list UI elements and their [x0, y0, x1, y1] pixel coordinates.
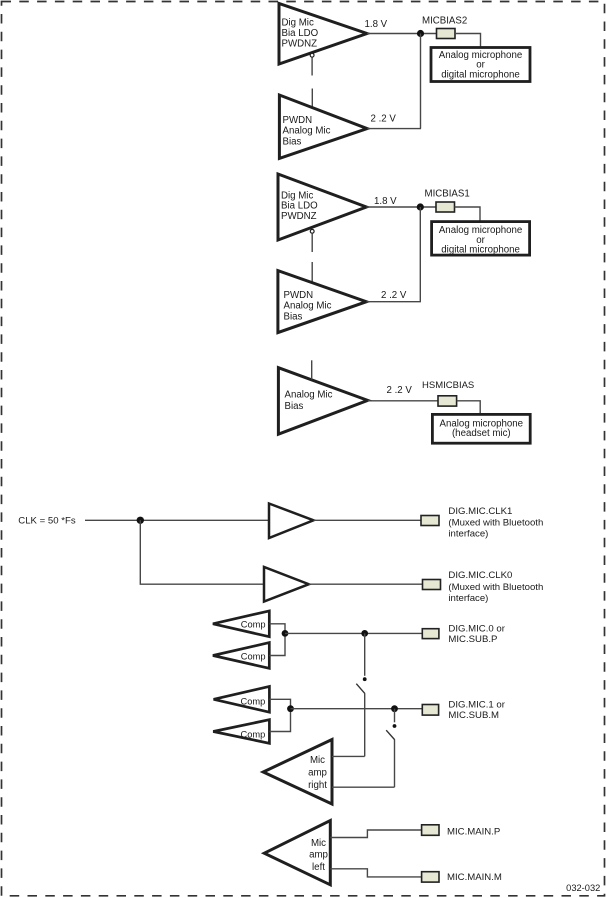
svg-text:amp: amp [309, 850, 328, 861]
svg-text:PWDNZ: PWDNZ [282, 39, 318, 50]
svg-text:MIC.MAIN.P: MIC.MAIN.P [447, 827, 500, 838]
wire: U5 output 2.2V to HSMICBIAS pad [368, 400, 438, 402]
switch SW2 upper wire [394, 709, 396, 723]
wire: Mic amp left lower input to MIC.MAIN.M pad [330, 869, 421, 877]
svg-text:1.8 V: 1.8 V [374, 196, 397, 207]
wire: U5 control stub [311, 360, 313, 379]
svg-text:Comp: Comp [241, 729, 266, 739]
svg-text:CLK = 50 *Fs: CLK = 50 *Fs [18, 516, 76, 527]
svg-text:Bias: Bias [284, 311, 303, 322]
wire: Mic amp left upper input to MIC.MAIN.P pad [330, 830, 421, 838]
switch SW2 lower wire to Mic amp right [394, 740, 396, 787]
svg-text:DIG.MIC.CLK1: DIG.MIC.CLK1 [448, 506, 512, 517]
svg-text:Dig Mic: Dig Mic [282, 18, 314, 29]
amplifier U8: Mic amp right [263, 740, 332, 805]
svg-text:PWDN: PWDN [283, 115, 313, 126]
wire: MICBIAS2 junction down to 2.2V line [420, 34, 422, 129]
wire: U7 output to DIG.MIC.CLK0 pad [309, 583, 423, 585]
svg-text:DIG.MIC.0 or: DIG.MIC.0 or [448, 623, 505, 634]
wire: U3 PWDNZ control line [311, 234, 313, 283]
wire: CLK input line [85, 519, 269, 521]
node: DIG.MIC.1 switch junction [391, 705, 398, 712]
svg-text:interface): interface) [448, 593, 488, 604]
svg-text:Mic: Mic [310, 755, 325, 766]
svg-text:amp: amp [308, 768, 327, 779]
wire: U1 PWDNZ control line [311, 58, 313, 108]
switch SW2 blade [386, 730, 395, 740]
node: MICBIAS1 junction [417, 203, 424, 210]
wire: U1 output 1.8V to MICBIAS2 pad [367, 33, 437, 35]
svg-text:2 .2 V: 2 .2 V [387, 385, 413, 396]
comparator A2 (Comp) [213, 643, 269, 669]
wire: DIG.MIC.1 line [291, 708, 423, 710]
svg-text:Bias: Bias [285, 401, 304, 412]
svg-text:PWDN: PWDN [284, 290, 314, 301]
inverter bubble on U1 PWDNZ [310, 53, 314, 57]
wire: comparator A bracket [269, 624, 285, 656]
wire: MICBIAS1 pad to microphone box [455, 207, 481, 222]
wire: MICBIAS2 pad to microphone box [455, 34, 481, 48]
box: analog/digital microphone (MICBIAS1) [432, 222, 530, 256]
comparator B1 (Comp) [214, 686, 270, 712]
svg-text:MICBIAS1: MICBIAS1 [425, 189, 470, 200]
wire: comparator B bracket [269, 699, 290, 731]
svg-text:Analog Mic: Analog Mic [285, 390, 333, 401]
pad: MICBIAS2 [437, 29, 456, 39]
switch SW1 contact dot [363, 677, 367, 681]
svg-text:Analog Mic: Analog Mic [284, 300, 332, 311]
wire: U6 output to DIG.MIC.CLK1 pad [314, 519, 422, 521]
svg-text:1.8 V: 1.8 V [365, 19, 388, 30]
svg-text:(Muxed with Bluetooth: (Muxed with Bluetooth [448, 517, 543, 528]
svg-text:MIC.SUB.P: MIC.SUB.P [448, 634, 497, 645]
box: analog/digital microphone (MICBIAS2) [431, 48, 530, 82]
svg-text:2 .2 V: 2 .2 V [371, 114, 397, 125]
comparator B2 (Comp) [213, 720, 269, 744]
amplifier U3: Dig Mic Bias LDO (MICBIAS1) [278, 174, 366, 240]
pad: MIC.MAIN.P [422, 825, 439, 836]
node: DIG.MIC.0 switch junction [361, 630, 368, 637]
svg-text:DIG.MIC.1 or: DIG.MIC.1 or [448, 699, 505, 710]
pad: HSMICBIAS [438, 396, 457, 406]
wire: Mic amp right upper input [332, 755, 365, 757]
svg-text:Comp: Comp [241, 696, 266, 706]
svg-text:Analog Mic: Analog Mic [283, 125, 331, 136]
amplifier U4: PWDN Analog Mic Bias (MICBIAS1) [278, 271, 367, 333]
amplifier U9: Mic amp left [264, 821, 330, 885]
svg-text:(Muxed with Bluetooth: (Muxed with Bluetooth [448, 582, 543, 593]
label: DIG.MIC.CLK1 block [448, 506, 543, 540]
wire: U3 output 1.8V to MICBIAS1 pad [366, 206, 436, 208]
pad: DIG.MIC.CLK0 [423, 580, 441, 590]
wire: U2 output 2.2V [367, 128, 421, 130]
svg-text:032-032: 032-032 [566, 883, 600, 893]
svg-text:PWDNZ: PWDNZ [281, 211, 317, 222]
label: DIG.MIC.1 block [448, 699, 505, 721]
svg-text:MIC.SUB.M: MIC.SUB.M [448, 710, 499, 721]
buffer U7: DIG.MIC.CLK0 [264, 567, 309, 602]
switch SW1 blade [356, 684, 365, 694]
svg-text:right: right [308, 780, 327, 791]
svg-text:Mic: Mic [311, 838, 326, 849]
amplifier U2: PWDN Analog Mic Bias [279, 95, 367, 158]
buffer U6: DIG.MIC.CLK1 [269, 504, 314, 539]
wire: HSMICBIAS pad to headset mic box [457, 401, 481, 415]
svg-text:Comp: Comp [241, 620, 266, 630]
wire: CLK junction to buffer U7 [140, 520, 264, 584]
switch SW1 upper wire [364, 633, 366, 675]
pad: MICBIAS1 [436, 202, 455, 212]
svg-text:(headset mic): (headset mic) [452, 428, 511, 439]
svg-text:MICBIAS2: MICBIAS2 [422, 16, 467, 27]
svg-text:digital microphone: digital microphone [441, 245, 520, 256]
svg-text:Bias: Bias [283, 136, 302, 147]
wire: MICBIAS1 junction down to 2.2V line [419, 207, 421, 302]
comparator A1 (Comp) [213, 611, 269, 637]
wire: U4 output 2.2V [366, 301, 421, 303]
pad: DIG.MIC.1 [422, 705, 438, 716]
svg-text:left: left [312, 862, 325, 873]
box: analog microphone (headset mic) [432, 414, 530, 443]
amplifier U1: Dig Mic Bias LDO (MICBIAS2) [279, 4, 367, 65]
label: DIG.MIC.0 block [448, 623, 505, 645]
svg-text:digital microphone: digital microphone [441, 70, 520, 81]
switch SW2 contact dot [393, 724, 397, 728]
wire: Mic amp right lower input [332, 786, 395, 788]
pad: DIG.MIC.CLK1 [421, 516, 439, 526]
amplifier U5: Analog Mic Bias (HSMICBIAS) [278, 368, 367, 435]
svg-text:MIC.MAIN.M: MIC.MAIN.M [447, 872, 502, 883]
svg-text:HSMICBIAS: HSMICBIAS [422, 380, 474, 391]
inverter bubble on U3 PWDNZ [310, 229, 314, 233]
svg-text:DIG.MIC.CLK0: DIG.MIC.CLK0 [448, 570, 512, 581]
switch SW1 lower wire to Mic amp right [364, 694, 366, 757]
svg-text:Comp: Comp [241, 651, 266, 661]
node: MICBIAS2 junction [417, 30, 424, 37]
label: DIG.MIC.CLK0 block [448, 570, 543, 604]
wire: DIG.MIC.0 line [285, 632, 422, 634]
node: CLK junction [137, 517, 144, 524]
svg-text:2 .2 V: 2 .2 V [381, 290, 407, 301]
svg-text:Bia LDO: Bia LDO [282, 28, 319, 39]
svg-text:interface): interface) [448, 529, 488, 540]
pad: DIG.MIC.0 [422, 629, 439, 639]
node: DIG.MIC.0 bracket junction [282, 630, 289, 637]
node: DIG.MIC.1 bracket junction [287, 705, 294, 712]
pad: MIC.MAIN.M [422, 872, 439, 882]
